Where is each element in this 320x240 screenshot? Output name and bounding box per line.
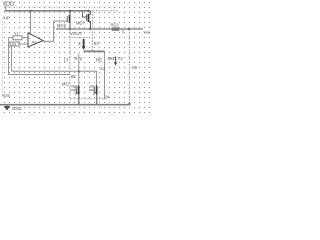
wire noninverting input xyxy=(19,43,28,45)
wire dotted top border xyxy=(5,6,118,8)
op-amp U1 xyxy=(28,33,43,47)
wire left feedback vertical outer xyxy=(8,38,10,75)
svg-text:Y1: Y1 xyxy=(14,31,20,36)
wire gate feed horizontal xyxy=(54,20,67,22)
node junction right column xyxy=(128,28,130,30)
svg-text:24: 24 xyxy=(105,94,110,99)
svg-text:C9: C9 xyxy=(132,65,138,70)
wire dashed box bottom edge xyxy=(70,98,105,100)
wire dashed box top edge xyxy=(69,37,92,39)
resistor RD2 xyxy=(112,28,119,31)
svg-text:AIF: AIF xyxy=(3,15,10,20)
node junction T1 source xyxy=(78,104,80,106)
node junction MD7 drain xyxy=(89,28,91,30)
wire inner right vertical xyxy=(104,51,106,98)
node junction MC6 source xyxy=(69,10,71,12)
wire T1 gate column xyxy=(78,54,80,86)
node junction T2 source xyxy=(96,104,98,106)
svg-text:X: X xyxy=(78,41,81,46)
svg-text:MD7: MD7 xyxy=(76,20,86,25)
resistor ZR xyxy=(10,42,19,46)
node junction T1 column xyxy=(78,70,80,72)
svg-text:17: 17 xyxy=(64,58,70,63)
wire T2 drain vertical xyxy=(96,71,98,85)
svg-text:GND: GND xyxy=(12,106,22,111)
svg-text:MQ: MQ xyxy=(62,81,69,86)
wire stub below output line xyxy=(122,30,124,34)
wire gate feed vertical xyxy=(53,21,55,41)
wire feedback horizontal A xyxy=(12,70,97,72)
svg-text:85: 85 xyxy=(71,74,76,79)
svg-text:R: R xyxy=(75,56,78,61)
node junction rail end xyxy=(87,10,89,12)
wire VDD rail xyxy=(5,10,89,12)
wire op-amp output xyxy=(43,40,54,42)
ground xyxy=(6,105,8,107)
svg-text:6V: 6V xyxy=(94,41,99,46)
svg-text:A9: A9 xyxy=(32,40,38,45)
svg-text:Vout: Vout xyxy=(144,29,151,34)
svg-text:VOUT: VOUT xyxy=(70,31,83,36)
wire inverting input xyxy=(22,37,28,39)
wire left feedback vertical inner xyxy=(11,46,13,71)
svg-text:X2: X2 xyxy=(100,66,106,71)
svg-text:2R: 2R xyxy=(12,43,17,47)
wire dashed box left edge xyxy=(69,30,71,99)
svg-text:MΩ: MΩ xyxy=(108,56,116,61)
wire VDD tick xyxy=(5,5,7,11)
svg-text:RE: RE xyxy=(96,58,102,63)
wire ground rail xyxy=(0,104,130,106)
transistor MC6 xyxy=(67,11,70,29)
svg-text:Y2: Y2 xyxy=(118,56,124,61)
svg-text:MC6: MC6 xyxy=(57,23,67,28)
node corner nub bottom right xyxy=(129,103,131,105)
wire dashed middle vertical xyxy=(92,11,94,51)
node junction op-amp power xyxy=(29,10,31,12)
wire output line xyxy=(56,28,143,30)
transistor MD7 xyxy=(82,11,90,29)
wire to resistor Y1 xyxy=(9,37,13,39)
wire dotted left border xyxy=(2,21,4,95)
wire feedback horizontal B xyxy=(9,74,70,76)
svg-text:AVS: AVS xyxy=(2,93,10,98)
transistor T2 xyxy=(89,86,97,105)
wire dashed VDD rail continuation xyxy=(90,10,118,12)
node junction MC6 drain xyxy=(69,28,71,30)
wire dashed right column xyxy=(128,29,130,104)
resistor Y1 xyxy=(13,36,22,40)
wire op-amp power stub xyxy=(30,11,32,35)
wire thick middle horizontal xyxy=(84,50,105,52)
transistor T1 xyxy=(71,86,79,105)
svg-text:RD2: RD2 xyxy=(111,22,120,27)
